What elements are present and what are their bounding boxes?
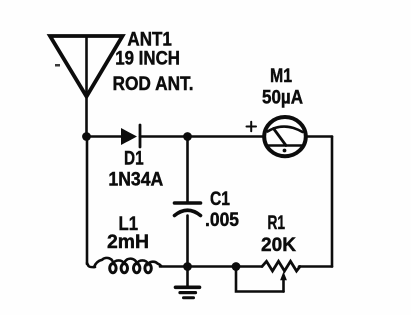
- meter M1: [264, 117, 306, 156]
- node junction antenna/top wire: [82, 132, 91, 141]
- wire top left segment: [87, 135, 123, 138]
- svg-text:20K: 20K: [261, 234, 296, 256]
- ground: [176, 267, 200, 298]
- noise speck: [55, 64, 60, 67]
- wire right vertical: [331, 137, 334, 267]
- wire C1 upper lead: [186, 137, 189, 203]
- wire bottom left corner: [87, 263, 95, 267]
- svg-text:19 INCH: 19 INCH: [115, 48, 180, 70]
- diode D1: [121, 125, 140, 147]
- capacitor C1: [175, 203, 201, 216]
- node junction wiper/bottom wire: [232, 262, 241, 271]
- inductor L1: [94, 258, 162, 273]
- wire meter to right corner: [306, 135, 332, 138]
- svg-text:1N34A: 1N34A: [108, 168, 163, 190]
- wire left vertical: [86, 137, 89, 265]
- wire resistor left to wiper junction: [236, 265, 262, 268]
- svg-text:R1: R1: [268, 212, 286, 234]
- node junction ground/bottom wire: [183, 262, 192, 271]
- svg-text:.005: .005: [205, 209, 239, 231]
- wire bottom right segment: [299, 265, 332, 268]
- svg-text:ROD ANT.: ROD ANT.: [113, 73, 194, 95]
- svg-text:M1: M1: [270, 65, 292, 87]
- svg-text:D1: D1: [124, 148, 144, 170]
- polarity + of meter: [247, 122, 257, 131]
- node junction top / C1: [183, 132, 192, 141]
- wire top middle segment: [140, 135, 264, 138]
- resistor R1 (potentiometer): [262, 261, 300, 291]
- svg-text:C1: C1: [210, 188, 230, 210]
- wire bottom middle segment: [188, 265, 237, 268]
- wire ground junction to inductor: [160, 265, 188, 268]
- svg-text:50µA: 50µA: [262, 87, 303, 109]
- wire C1 lower lead: [186, 216, 189, 267]
- antenna ANT1: [50, 36, 123, 137]
- wire wiper loop: [236, 267, 284, 292]
- svg-text:2mH: 2mH: [107, 231, 149, 253]
